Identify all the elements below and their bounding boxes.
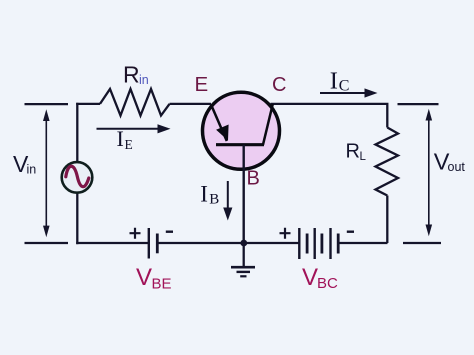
transistor Q1 emitter arrowhead (PNP) [216,125,229,141]
source V1 AC circle [62,162,93,193]
wire top-left horizontal [76,103,100,105]
wire Vin measurement arrow (double-headed) [43,109,50,237]
wire bottom middle (VBE battery to VBC battery) [158,242,300,244]
battery V3 VBC minus sign [347,230,354,232]
svg-text:I: I [330,68,338,95]
wire IC current arrow [320,88,378,97]
label Vout [434,149,466,175]
wire IE current arrow [97,124,171,133]
svg-text:BE: BE [152,276,172,293]
resistor R2 RL zigzag [376,128,399,196]
svg-text:B: B [209,191,219,207]
svg-text:V: V [302,264,318,291]
svg-text:I: I [117,126,124,151]
battery V2 VBE long plate [148,228,150,259]
wire IB current arrow [223,181,232,221]
wire Vout measurement arrow (double-headed) [426,109,433,236]
battery V3 VBC plus sign [280,228,291,239]
svg-text:L: L [360,151,367,163]
svg-text:R: R [346,141,360,163]
node Vout- terminal bar (bottom-right) [403,242,441,244]
svg-text:BC: BC [317,275,338,292]
battery V3 VBC plate 1 (long) [298,228,300,259]
svg-text:B: B [247,167,260,189]
wire left vertical (top wire to source top) [76,103,78,162]
wire right vertical (RL bottom to bottom wire) [386,196,388,244]
battery V3 VBC plate 6 (short) [337,234,340,254]
svg-text:in: in [27,163,37,177]
wire base (transistor base bar to bottom wire) [242,145,244,243]
node Vout+ terminal bar (top-right) [398,103,439,105]
svg-text:out: out [448,160,466,174]
label Vin [13,151,36,177]
ground [231,243,255,276]
svg-text:E: E [125,137,133,152]
source V1 sine wave [66,166,89,186]
svg-text:C: C [339,78,350,95]
battery V2 VBE short plate [156,234,159,254]
battery V2 VBE minus sign [166,230,173,232]
battery V3 VBC plate 3 (long) [314,228,316,259]
label VBC (battery V3) [302,264,338,292]
svg-text:E: E [195,73,209,96]
label Rin (value of resistor R1) [123,61,149,87]
transistor Q1 emitter line [211,105,227,142]
label IE current [117,126,133,152]
svg-text:I: I [200,181,208,206]
wire bottom-left horizontal (to VBE battery) [76,242,148,244]
svg-text:in: in [139,73,149,87]
battery V3 VBC plate 5 (long) [329,228,331,259]
label VBE (battery V2) [136,264,172,293]
svg-text:C: C [272,74,286,96]
label IC current [330,68,350,95]
node Vin+ terminal bar (top-left) [25,103,69,105]
wire top middle (resistor to transistor emitter) [170,103,212,105]
node Vin- terminal bar (bottom-left) [25,242,69,244]
wire bottom-right horizontal (VBC battery to corner) [339,242,388,244]
battery V3 VBC plate 2 (short) [306,234,309,254]
battery V3 VBC plate 4 (short) [320,234,323,254]
wire left vertical (source bottom to bottom wire) [76,194,78,245]
resistor R1 Rin zigzag [100,89,170,116]
battery V2 VBE plus sign [130,228,141,239]
wire top-right horizontal (collector to corner) [271,104,388,128]
transistor Q1 base bar [216,143,264,146]
svg-text:V: V [136,264,152,291]
svg-text:R: R [123,61,140,87]
transistor Q1 body circle [203,92,280,169]
transistor Q1 collector line [263,104,273,145]
label IB current [200,181,219,207]
node B junction dot [240,240,247,247]
label RL (value of resistor R2) [346,141,367,164]
